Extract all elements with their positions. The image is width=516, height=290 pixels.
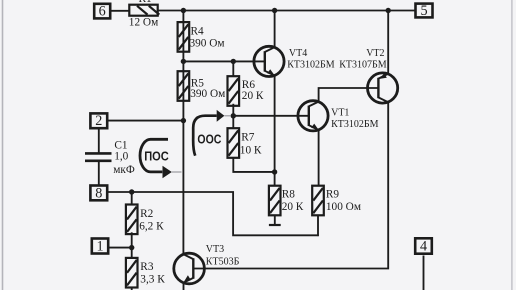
capacitor C1: [85, 153, 112, 160]
svg-text:5: 5: [420, 3, 427, 19]
svg-text:R2: R2: [140, 208, 154, 220]
wire: VT4 base line: [183, 60, 265, 62]
junction node R6/R7/VT1 base: [231, 113, 236, 118]
wire: box2 down to C1: [98, 129, 100, 153]
svg-text:КТ3107БМ: КТ3107БМ: [339, 60, 387, 71]
svg-text:R4: R4: [191, 26, 205, 38]
terminal box 6: [94, 3, 110, 19]
svg-text:VT4: VT4: [289, 48, 307, 59]
wire: VT1 collector to VT2 base: [319, 88, 379, 102]
svg-text:6,2 К: 6,2 К: [139, 220, 164, 232]
resistor R7: [228, 128, 240, 158]
svg-text:4: 4: [420, 239, 427, 255]
svg-text:12 Ом: 12 Ом: [129, 16, 158, 28]
value 20 К: [242, 90, 264, 102]
transistor VT1: [298, 101, 328, 131]
junction node rail/VT2 emitter: [386, 8, 391, 13]
wire: VT1 emitter to R9: [318, 130, 320, 186]
transistor VT4: [254, 46, 284, 76]
wire: box2 lead: [109, 120, 184, 122]
svg-text:ПОС: ПОС: [144, 150, 169, 164]
junction node rail/VT4 collector: [272, 8, 277, 13]
junction node rail/R4: [181, 8, 186, 13]
value 12 Ом: [129, 16, 158, 28]
wire: R2 top lead: [131, 192, 133, 205]
wire: R3 bottom lead: [131, 287, 133, 290]
resistor R9: [312, 186, 324, 216]
value 390 Ом: [190, 38, 225, 50]
svg-text:1: 1: [96, 239, 103, 255]
label КТ503Б: [206, 257, 240, 268]
wire: R9 bottom lead: [317, 215, 319, 236]
resistor R2: [126, 205, 138, 235]
wire: VT1 base line: [233, 115, 309, 117]
resistor R5: [178, 71, 190, 101]
label VT1: [331, 107, 349, 118]
wire: box8 net to R9 bottom: [109, 192, 319, 235]
wire: VT2 collector down and left to VT3 base: [193, 102, 388, 269]
transistor VT2 (PNP): [368, 73, 398, 103]
label VT2: [366, 48, 384, 59]
svg-text:100 Ом: 100 Ом: [326, 201, 361, 213]
junction node VT4 emitter/R7/R8: [272, 169, 277, 174]
label ПОС: [144, 150, 169, 164]
OOS gray stub: [224, 115, 230, 117]
transistor VT3 (mirrored): [174, 253, 205, 284]
wire: VT3 emitter lead to bottom edge: [183, 282, 185, 290]
svg-text:C1: C1: [114, 139, 127, 151]
wire: box6 to R1: [111, 10, 131, 12]
svg-text:2: 2: [95, 113, 102, 129]
svg-text:R3: R3: [140, 261, 154, 273]
junction node box2/R5 line: [181, 118, 186, 123]
VT4 emitter arrow: [267, 69, 274, 75]
svg-text:VT3: VT3: [206, 244, 224, 255]
svg-text:3,3 К: 3,3 К: [140, 274, 165, 286]
value 390 Ом: [190, 88, 225, 100]
svg-text:R8: R8: [282, 189, 296, 201]
svg-text:6: 6: [99, 3, 106, 19]
svg-text:10 К: 10 К: [240, 144, 262, 156]
wire: R7 bottom to R8 junction: [233, 157, 274, 172]
junction node box8/R2: [129, 189, 134, 194]
label КТ3102БМ: [287, 60, 335, 71]
POS gray stub: [172, 171, 182, 173]
wire: R6-R7 link: [232, 104, 234, 128]
wire: VT4 emitter lead: [274, 75, 276, 172]
wire: C1 to box8: [98, 161, 100, 185]
label R3: [140, 261, 154, 273]
value 20 К: [282, 201, 304, 213]
label R1 (cut at top): [139, 0, 152, 5]
OOS feedback arrow: [193, 110, 224, 156]
label R4: [191, 26, 205, 38]
terminal bar at R8 bottom: [269, 224, 281, 226]
wire: VT2 emitter lead: [387, 11, 389, 75]
junction node R4/R5/VT4 base: [181, 59, 186, 64]
VT1 emitter arrow: [311, 124, 318, 130]
right page border: [511, 0, 513, 290]
value 1,0: [114, 151, 128, 163]
svg-text:390 Ом: 390 Ом: [190, 88, 225, 100]
svg-text:20 К: 20 К: [242, 90, 264, 102]
svg-text:КТ3102БМ: КТ3102БМ: [331, 119, 379, 130]
POS feedback arrow: [140, 139, 172, 178]
wire: R8 top lead: [274, 172, 276, 186]
svg-text:R7: R7: [241, 132, 255, 144]
terminal box 2: [90, 113, 107, 129]
label R7: [241, 132, 255, 144]
svg-text:VT1: VT1: [331, 107, 349, 118]
svg-text:мкФ: мкФ: [113, 164, 135, 176]
terminal box 8: [90, 185, 107, 201]
wire: R8 bottom lead: [274, 215, 276, 225]
label R8: [282, 189, 296, 201]
value 100 Ом: [326, 201, 361, 213]
value 6,2 К: [139, 220, 164, 232]
label КТ3102БМ: [331, 119, 379, 130]
resistor R8: [269, 186, 281, 216]
terminal box 5: [416, 3, 433, 19]
svg-text:R9: R9: [326, 189, 340, 201]
label R5: [191, 77, 205, 89]
label R6: [242, 79, 256, 91]
wire: top rail R1 to box5: [158, 10, 415, 12]
svg-text:1,0: 1,0: [114, 151, 128, 163]
wire: main vertical x=183.4 (R4/R5 chain down to VT3 collector): [182, 11, 184, 255]
label ООС: [197, 133, 221, 147]
label VT3: [206, 244, 224, 255]
resistor R1: [129, 5, 159, 16]
svg-text:R1: R1: [139, 0, 152, 5]
terminal box 4: [415, 238, 432, 254]
terminal box 1: [92, 239, 108, 255]
label R2: [140, 208, 154, 220]
wire: R2-R3 link: [131, 232, 133, 258]
resistor R6: [228, 76, 240, 106]
left page border: [2, 0, 4, 290]
svg-text:8: 8: [95, 185, 102, 201]
svg-text:20 К: 20 К: [282, 201, 304, 213]
svg-text:КТ503Б: КТ503Б: [206, 257, 240, 268]
label VT4: [289, 48, 307, 59]
value 10 К: [240, 144, 262, 156]
label C1: [114, 139, 127, 151]
wire: box4 lead down: [423, 256, 425, 290]
svg-text:КТ3102БМ: КТ3102БМ: [287, 60, 335, 71]
svg-text:VT2: VT2: [366, 48, 384, 59]
value 3,3 К: [140, 274, 165, 286]
junction node R6 top: [231, 59, 236, 64]
resistor R4: [178, 22, 190, 52]
svg-text:ООС: ООС: [197, 133, 221, 147]
resistor R3: [126, 258, 138, 288]
value мкФ: [113, 164, 135, 176]
svg-text:390 Ом: 390 Ом: [190, 38, 225, 50]
wire: R6 top lead: [232, 61, 234, 76]
junction node box1/R2/R3: [129, 245, 134, 250]
wire: box1 lead: [109, 247, 132, 249]
wire: VT4 collector lead: [274, 11, 276, 49]
VT2 emitter arrow (points to base): [379, 73, 387, 79]
VT3 emitter arrow: [184, 275, 191, 282]
label R9: [326, 189, 340, 201]
label КТ3107БМ: [339, 60, 387, 71]
